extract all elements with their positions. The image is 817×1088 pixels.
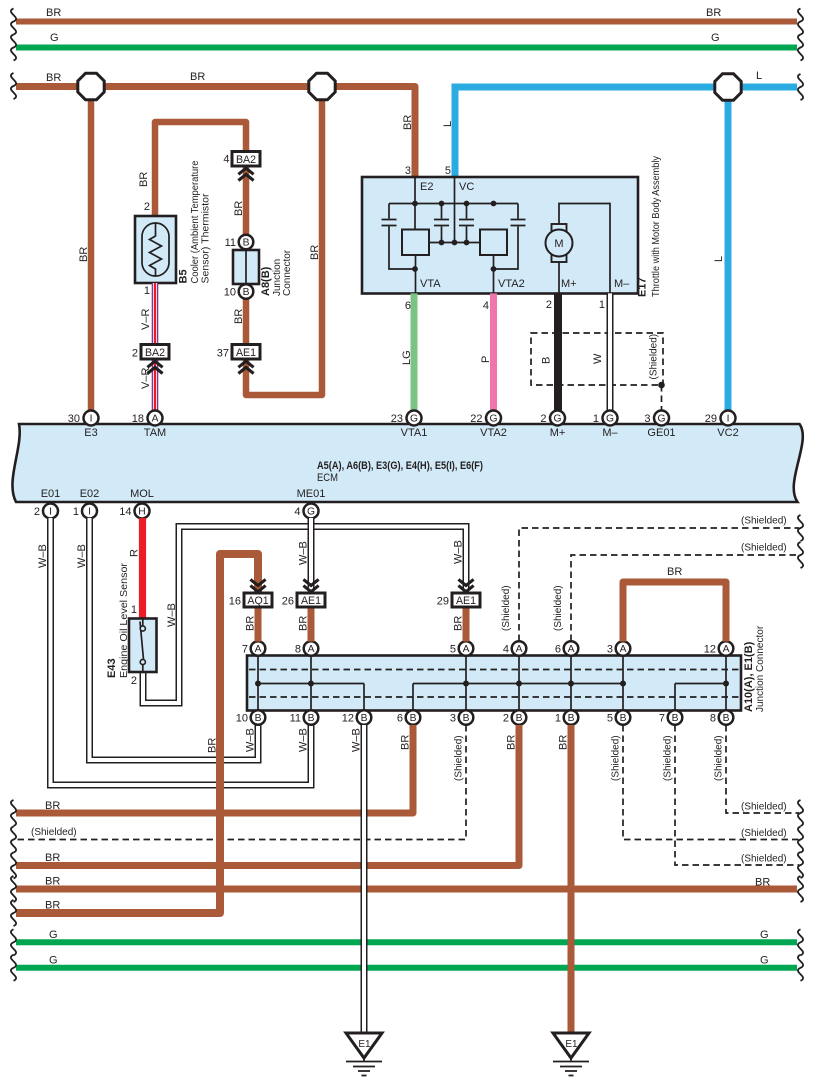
ECM top pin 2 M+ [540,411,565,440]
wire BR BA2-4 to A8 to AE1-37 [243,166,250,345]
svg-text:BR: BR [78,247,90,262]
connector AE1 pin29 [437,593,480,608]
svg-text:(Shielded): (Shielded) [741,543,787,554]
strip pin 10B [236,710,266,725]
svg-text:(Shielded): (Shielded) [741,802,787,813]
wire BR AQ1 to 7A [255,607,262,642]
strip pin 11B [290,710,319,725]
svg-text:3: 3 [644,413,650,425]
wire BR AE1-29 to 5A [463,607,470,642]
svg-text:G: G [553,414,561,425]
svg-text:B: B [255,713,262,724]
svg-text:BR: BR [309,245,321,260]
svg-text:L: L [442,121,454,127]
svg-text:B: B [410,713,417,724]
svg-text:(Shielded): (Shielded) [31,827,77,838]
svg-text:(Shielded): (Shielded) [741,854,787,865]
node mid row [429,242,480,244]
svg-text:LG: LG [401,350,413,365]
svg-text:M+: M+ [550,427,566,439]
wire VC internal [454,177,456,243]
svg-text:E3: E3 [84,427,97,439]
svg-text:2: 2 [34,506,40,518]
svg-text:AE1: AE1 [236,347,256,359]
wire bus BR full width [16,886,797,893]
svg-text:AE1: AE1 [456,595,476,607]
svg-text:4: 4 [483,300,489,312]
svg-text:E1: E1 [358,1039,371,1050]
svg-text:4: 4 [294,506,300,518]
svg-text:TAM: TAM [144,427,166,439]
svg-text:A: A [255,644,262,655]
shielded line to 6A [571,555,799,641]
wire bus BR top [16,19,797,25]
svg-text:VC2: VC2 [717,427,738,439]
strip pin 1B [555,710,578,725]
svg-text:Throttle with Motor Body Assem: Throttle with Motor Body Assembly [651,156,662,297]
ECM top pin 23 VTA1 [391,411,428,440]
svg-text:A: A [308,644,315,655]
ECM bottom pin 1 E02 [73,488,99,519]
svg-text:I: I [90,414,93,425]
svg-text:M–: M– [602,427,618,439]
svg-text:M+: M+ [561,278,577,290]
svg-text:E02: E02 [80,488,100,500]
svg-text:A: A [723,644,730,655]
ECM top pin 29 VC2 [705,411,739,440]
svg-text:(Shielded): (Shielded) [714,735,725,781]
svg-text:2: 2 [540,413,546,425]
svg-text:VTA2: VTA2 [498,278,525,290]
wire bus G top [16,45,797,51]
strip pin 12B [342,710,372,725]
svg-text:8: 8 [710,713,716,725]
svg-text:10: 10 [224,287,236,299]
connector BA2 pin2 [132,345,169,360]
svg-text:G: G [657,414,665,425]
wire V-R BA2-2 to TAM [152,359,159,411]
svg-text:16: 16 [229,596,241,608]
svg-text:B: B [463,713,470,724]
svg-text:37: 37 [217,348,229,360]
break marks shielded right [798,515,803,541]
svg-text:B: B [243,287,250,298]
shield box M+/M- [531,333,663,385]
wire V-R B5 pin1 to BA2-2 [152,283,159,345]
svg-text:(Shielded): (Shielded) [649,334,660,380]
strip pin 4A [503,641,526,656]
svg-text:G: G [49,929,58,941]
svg-text:5: 5 [450,644,456,656]
svg-text:BR: BR [706,7,721,19]
svg-text:11: 11 [290,713,301,725]
ECM top pin 18 TAM [132,411,166,440]
svg-text:M: M [554,238,563,250]
strip pin 5A [450,641,473,656]
svg-text:I: I [88,507,91,518]
svg-text:BR: BR [45,900,60,912]
svg-text:BR: BR [207,738,219,753]
shielded line to 4A [519,528,799,641]
strip pin 6B [397,710,420,725]
svg-text:BR: BR [667,566,682,578]
ECM top pin 1 M- [593,411,619,440]
svg-text:Cooler (Ambient Temperature: Cooler (Ambient Temperature [190,160,201,283]
svg-text:AQ1: AQ1 [247,595,268,607]
svg-text:1: 1 [599,299,605,311]
break marks left top [11,9,16,35]
svg-text:3: 3 [450,713,456,725]
strip pin 8B [710,710,733,725]
svg-text:BR: BR [558,735,570,750]
shielded line 5B to right [623,725,799,840]
svg-text:B: B [308,713,315,724]
svg-text:A: A [463,644,470,655]
svg-text:2: 2 [132,348,138,360]
svg-text:10: 10 [236,713,248,725]
strip dashed internal bottom [249,696,739,698]
ECM bottom pin 14 MOL [119,488,154,519]
svg-text:E2: E2 [420,181,433,193]
shielded line 7B to right [675,725,799,865]
svg-text:BR: BR [45,876,60,888]
ground E1 right [553,1033,589,1076]
svg-text:8: 8 [295,644,301,656]
svg-text:(Shielded): (Shielded) [454,735,465,781]
svg-text:G: G [410,414,418,425]
capacitor C4 [494,204,526,270]
svg-text:I: I [49,507,52,518]
wire BR octagon2 to AE1 loop [246,87,322,396]
strip pin 2B [503,710,526,725]
svg-text:G: G [489,414,497,425]
svg-text:BR: BR [755,877,770,889]
svg-text:L: L [713,256,725,262]
svg-text:GE01: GE01 [647,427,675,439]
svg-text:30: 30 [68,413,80,425]
svg-text:G: G [49,955,58,967]
svg-text:L: L [756,70,762,82]
svg-text:M–: M– [614,278,630,290]
svg-text:6: 6 [405,300,411,312]
wire E2 internal [414,177,416,230]
shielded line 3B to left [16,725,466,840]
svg-text:18: 18 [132,413,144,425]
svg-text:BR: BR [506,735,518,750]
svg-text:BR: BR [45,800,60,812]
svg-text:VTA2: VTA2 [480,427,507,439]
svg-text:V–R: V–R [140,309,152,330]
svg-text:(Shielded): (Shielded) [741,516,787,527]
svg-text:B: B [541,357,553,364]
svg-text:E43: E43 [106,658,118,678]
svg-text:A5(A), A6(B), E3(G), E4(H), E5: A5(A), A6(B), E3(G), E4(H), E5(I), E6(F) [317,460,483,472]
svg-text:VC: VC [459,181,474,193]
wire R MOL to E43 [139,518,146,619]
shield drain to GE01 [661,385,663,411]
strip pin 7A [242,641,265,656]
svg-text:6: 6 [397,713,403,725]
capacitor C3 [459,204,474,243]
strip bus dots [255,681,729,687]
svg-text:W–B: W–B [245,728,257,752]
strip pin 5B [607,710,630,725]
wire bus BR with junctions [16,87,415,178]
svg-text:1: 1 [144,285,150,297]
svg-text:P: P [480,356,492,363]
wire W-B E43 to AE1-29 [143,527,466,704]
chevron down AQ1 [250,579,265,591]
throttle body E17 [362,177,638,294]
wire BR AE1-26 to 8A [308,607,315,642]
svg-text:W–B: W–B [37,544,49,568]
wire W-B ME01 to AE1-26 [308,518,315,590]
svg-text:4: 4 [503,644,509,656]
wire VTA2 internal [493,255,495,293]
svg-text:E1: E1 [565,1039,578,1050]
svg-text:E17: E17 [637,277,649,297]
connector BA2 pin4 [223,152,260,167]
svg-text:1: 1 [73,506,79,518]
svg-text:W–B: W–B [351,728,363,752]
svg-text:W: W [592,353,604,364]
ECM bottom pin 2 E01 [34,488,60,519]
wire bus G bottom 2 [16,965,797,971]
svg-text:BA2: BA2 [145,347,165,359]
ECM body [12,424,802,502]
svg-text:7: 7 [659,713,665,725]
svg-text:BR: BR [190,71,205,83]
svg-text:W–B: W–B [298,541,310,565]
svg-text:(Shielded): (Shielded) [663,735,674,781]
node dots E17 [412,201,496,272]
svg-text:VTA: VTA [420,278,441,290]
svg-text:BR: BR [245,616,257,631]
ECM top pin 3 GE01 [644,411,675,440]
strip pin 8A [295,641,318,656]
svg-text:H: H [138,507,145,518]
ECM top pin 22 VTA2 [470,411,507,440]
svg-text:G: G [760,955,769,967]
svg-text:Junction Connector: Junction Connector [755,625,766,712]
svg-text:E01: E01 [41,488,61,500]
svg-text:1: 1 [131,604,137,616]
svg-text:7: 7 [242,644,248,656]
chevron down AE1-29 [458,579,473,591]
svg-text:BR: BR [233,309,245,324]
svg-text:BA2: BA2 [236,154,256,166]
strip pin 3A [607,641,630,656]
thermistor B5 [135,216,176,283]
svg-text:BR: BR [138,172,150,187]
svg-text:VTA1: VTA1 [401,427,428,439]
svg-text:G: G [760,929,769,941]
svg-text:Connector: Connector [282,249,293,296]
ground E1 left [346,1033,382,1076]
svg-text:BR: BR [46,72,61,84]
svg-text:2: 2 [131,675,137,687]
svg-text:12: 12 [704,644,716,656]
wire B M+ [554,293,562,411]
oil level sensor E43 [129,619,157,673]
wire BR bus to AQ1 loop [16,554,258,913]
svg-text:11: 11 [225,237,236,249]
svg-text:BR: BR [298,616,310,631]
svg-text:ECM: ECM [317,472,338,484]
svg-text:2: 2 [546,299,552,311]
wire VTA internal [415,255,417,293]
svg-text:A8(B): A8(B) [260,266,272,296]
wire BR 3A to 12A [623,582,726,642]
svg-text:B: B [620,713,627,724]
svg-text:14: 14 [119,506,131,518]
svg-text:4: 4 [223,154,229,166]
svg-text:(Shielded): (Shielded) [501,585,512,631]
svg-text:V–R: V–R [140,368,152,389]
svg-text:Engine Oil Level Sensor: Engine Oil Level Sensor [119,562,130,678]
svg-text:ME01: ME01 [297,488,326,500]
svg-text:BR: BR [45,852,60,864]
svg-text:6: 6 [555,644,561,656]
strip pin 3B [450,710,473,725]
capacitor C1 [382,204,416,270]
svg-text:B: B [672,713,679,724]
svg-text:(Shielded): (Shielded) [611,735,622,781]
ECM bottom pin 4 ME01 [294,488,325,519]
svg-text:AE1: AE1 [301,595,321,607]
svg-text:5: 5 [445,165,451,177]
wire BR B5 pin2 [155,122,246,216]
wire BR octagon1 to E3 [88,87,95,412]
svg-text:BR: BR [400,735,412,750]
svg-text:1: 1 [555,713,561,725]
wire LG VTA1 [411,293,418,411]
break marks bottom left [11,800,16,981]
node row1 [389,203,518,205]
svg-text:R: R [129,549,141,557]
junction octagon 3 [715,74,741,100]
wire bus G bottom 1 [16,939,797,945]
connector AE1 pin26 [282,593,325,608]
svg-text:3: 3 [607,644,613,656]
svg-text:22: 22 [470,413,482,425]
svg-text:5: 5 [607,713,613,725]
svg-text:2: 2 [503,713,509,725]
wire BR 2B to left bus [16,725,519,866]
svg-text:I: I [727,414,730,425]
svg-text:BR: BR [453,616,465,631]
wire BR 1B to ground E1 [568,725,575,1033]
wire W-B E01 to 11B [51,518,312,785]
connector AE1 pin37 [217,345,260,360]
svg-text:W–B: W–B [298,728,310,752]
svg-text:G: G [307,507,315,518]
chevron up BA2-4 [238,168,253,180]
svg-text:23: 23 [391,413,403,425]
shielded line 8B to right [726,725,799,813]
svg-text:1: 1 [593,413,599,425]
svg-text:BR: BR [46,7,61,19]
sensor element VTA [402,230,429,256]
strip pin 7B [659,710,682,725]
wire L to VC2 [725,87,732,411]
junction connector A8(B) [224,235,259,299]
svg-text:W–B: W–B [166,603,178,627]
wire P VTA2 [490,293,497,411]
strip dashed internal top [249,669,739,671]
svg-text:MOL: MOL [130,488,154,500]
junction octagon 2 [309,73,335,99]
svg-text:A: A [516,644,523,655]
wire W-B 12B to ground E1 [361,725,368,1033]
svg-text:G: G [711,32,720,44]
junction connector A10(A) E1(B) body [247,656,741,711]
strip internal bus segments [258,683,726,685]
svg-text:Sensor) Thermistor: Sensor) Thermistor [201,193,212,284]
svg-text:BR: BR [233,201,245,216]
svg-text:B: B [243,238,250,249]
svg-text:W–B: W–B [76,544,88,568]
svg-text:B: B [723,713,730,724]
svg-text:G: G [606,414,614,425]
svg-text:A10(A), E1(B): A10(A), E1(B) [743,641,755,712]
ECM top pin 30 E3 [68,411,99,440]
connector AQ1 pin16 [229,593,272,608]
strip pin 12A [704,641,734,656]
svg-text:2: 2 [144,201,150,213]
chevron up BA2-2 [147,361,162,373]
wire BR 6B to left bus [16,725,413,813]
break marks right top [798,9,803,35]
break marks bottom right [798,800,803,981]
svg-text:(Shielded): (Shielded) [741,828,787,839]
strip internal verticals [258,657,726,709]
motor M [546,204,611,294]
strip pin 6A [555,641,578,656]
chevron up AE1-37 [238,361,253,373]
svg-text:B: B [361,713,368,724]
wire W M- [607,293,614,411]
capacitor C2 [434,204,449,243]
svg-text:A: A [620,644,627,655]
svg-text:29: 29 [437,596,449,608]
wire W-B E02 to 10B [90,518,259,760]
svg-text:3: 3 [405,165,411,177]
chevron down AE1-26 [303,579,318,591]
sensor element VTA2 [480,230,507,256]
svg-text:B: B [568,713,575,724]
svg-text:B5: B5 [178,269,190,283]
svg-text:26: 26 [282,596,294,608]
junction octagon 1 [78,73,104,99]
svg-text:12: 12 [342,713,354,725]
wire L blue bus [455,87,797,177]
svg-text:A: A [152,414,159,425]
svg-text:(Shielded): (Shielded) [553,585,564,631]
svg-text:29: 29 [705,413,717,425]
svg-text:B: B [516,713,523,724]
svg-text:A: A [568,644,575,655]
svg-text:BR: BR [402,115,414,130]
svg-text:W–B: W–B [453,540,465,564]
svg-text:G: G [50,32,59,44]
